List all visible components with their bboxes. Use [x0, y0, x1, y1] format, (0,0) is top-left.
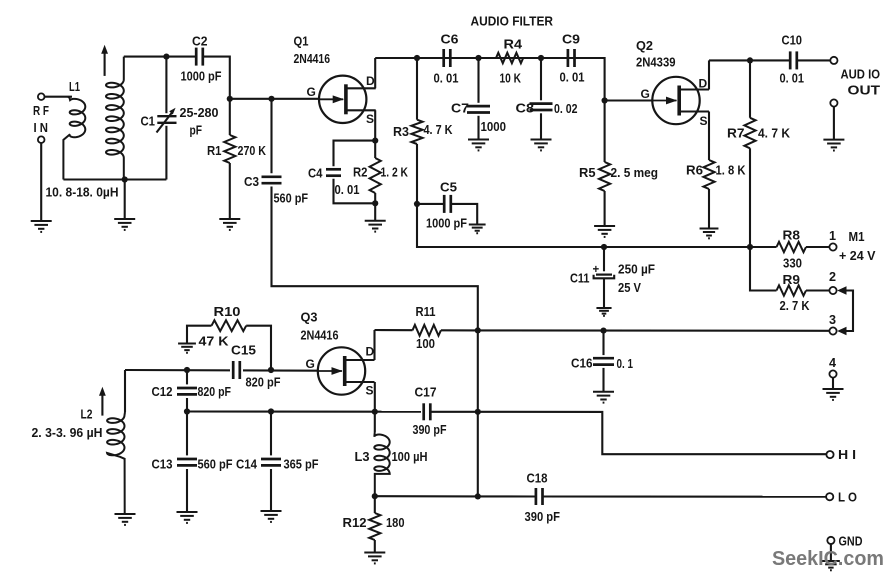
svg-text:C12: C12	[152, 385, 173, 399]
svg-text:0. 01: 0. 01	[434, 70, 459, 85]
svg-text:47 K: 47 K	[199, 334, 230, 349]
svg-text:D: D	[699, 76, 708, 90]
wire node3 bus	[478, 329, 830, 331]
wire R8 to terminal 1	[806, 246, 829, 248]
wire Q3 source down	[374, 382, 376, 412]
resistor R1 270 K	[224, 135, 235, 163]
wire to HI terminal	[478, 412, 827, 454]
wire R10 right lead	[246, 326, 271, 370]
svg-text:C18: C18	[527, 471, 548, 485]
capacitor C3 560 pF	[262, 175, 282, 178]
svg-text:Q1: Q1	[294, 35, 309, 49]
node R10 junction	[268, 367, 274, 373]
node C14 junction	[268, 408, 274, 414]
terminal RF IN bottom	[38, 136, 45, 143]
svg-text:0. 01: 0. 01	[335, 182, 360, 197]
wire source bus line2	[187, 410, 421, 412]
svg-text:SeekIC.com: SeekIC.com	[772, 547, 884, 570]
capacitor C15 820 pF	[230, 361, 243, 379]
capacitor C13 560 pF	[177, 458, 197, 461]
svg-text:560 pF: 560 pF	[198, 457, 233, 472]
wire R11 right lead	[441, 329, 478, 331]
resistor R9 2.7 K	[777, 285, 807, 295]
resistor R6 1.8 K	[703, 160, 714, 189]
ground L2	[115, 514, 136, 525]
node C5 junction	[414, 201, 420, 207]
terminal RF IN top	[38, 93, 45, 100]
wire Q3 source to L3	[374, 412, 376, 432]
wire C18 left lead	[478, 495, 536, 497]
svg-text:C4: C4	[308, 167, 323, 181]
svg-text:250 µF: 250 µF	[618, 262, 655, 277]
capacitor C6 0.01	[442, 49, 445, 67]
node C18 junction	[475, 493, 481, 499]
node C8 junction	[538, 55, 544, 61]
svg-text:OUT: OUT	[848, 83, 881, 97]
wire C1 bottom lead	[165, 126, 167, 180]
svg-text:C14: C14	[236, 458, 257, 472]
svg-text:10. 8-18. 0µH: 10. 8-18. 0µH	[46, 184, 119, 199]
terminal LO	[826, 493, 833, 500]
svg-text:R1: R1	[207, 144, 222, 158]
wire C8 bottom lead	[540, 113, 542, 139]
capacitor C5 1000 pF	[443, 195, 446, 213]
svg-text:365 pF: 365 pF	[284, 457, 319, 472]
svg-text:C16: C16	[571, 356, 593, 370]
wire C13 bottom lead	[186, 469, 188, 512]
wire RF IN bottom to ground	[40, 143, 42, 221]
wire R6 bottom lead	[708, 189, 710, 229]
svg-text:S: S	[366, 112, 374, 126]
svg-text:560 pF: 560 pF	[274, 191, 309, 206]
wire C8 top lead	[540, 58, 542, 100]
wire C9 to Q2 gate	[575, 58, 605, 101]
capacitor C10 0.01	[789, 51, 792, 69]
wire R3 column to +24V rail	[417, 204, 430, 247]
arrow tuning L2	[101, 393, 103, 416]
node C13 junction	[184, 408, 190, 414]
svg-text:C13: C13	[152, 458, 173, 472]
wire C13 top lead	[186, 412, 188, 456]
wire C11 bottom lead	[603, 278, 605, 308]
wire C3 bottom to feedback bus	[272, 187, 478, 331]
wire tank top to C2	[166, 56, 196, 58]
wire Q2 drain to rail	[708, 60, 710, 89]
wire R1 bottom lead	[229, 163, 231, 219]
svg-text:100 µH: 100 µH	[392, 449, 428, 464]
ground C7	[468, 140, 489, 151]
wire GND terminal to ground	[830, 544, 832, 561]
svg-text:270 K: 270 K	[238, 143, 267, 158]
svg-text:4: 4	[829, 356, 836, 370]
capacitor C2 1000 pF	[195, 48, 198, 66]
transistor Q3 2N4416 JFET	[318, 347, 365, 394]
svg-text:1. 2 K: 1. 2 K	[381, 164, 409, 179]
svg-text:0. 01: 0. 01	[780, 71, 805, 86]
svg-text:S: S	[366, 384, 374, 398]
node L3 bottom junction	[372, 493, 378, 499]
wire C7 bottom lead	[477, 116, 479, 140]
wire R3 bottom lead	[416, 144, 418, 204]
svg-text:R12: R12	[343, 516, 367, 530]
wire C17 right lead	[430, 411, 478, 413]
node Q1 source junction	[372, 138, 378, 144]
wire Q2 drain rail	[709, 59, 790, 61]
svg-text:C9: C9	[562, 33, 580, 47]
wire jumper terminal 2 to terminal 3	[840, 291, 853, 332]
svg-text:2N4416: 2N4416	[294, 51, 331, 66]
wire R5 top lead	[604, 101, 606, 163]
transistor Q1 2N4416 JFET	[319, 76, 366, 123]
wire audio return to ground	[833, 107, 835, 140]
svg-text:AUD IO: AUD IO	[841, 67, 881, 81]
wire C4 branch bottom	[334, 179, 376, 204]
svg-text:1000 pF: 1000 pF	[426, 216, 467, 231]
wire C5 left lead	[417, 203, 444, 205]
wire Q3 gate line	[125, 369, 318, 372]
svg-text:2. 5 meg: 2. 5 meg	[611, 165, 659, 180]
svg-text:D: D	[366, 345, 375, 359]
svg-text:C2: C2	[192, 34, 208, 48]
inductor L2 2.3-3.96 uH	[107, 412, 125, 514]
wire L3 bottom bus	[375, 495, 478, 497]
ground R1	[219, 219, 240, 230]
wire terminal 4 to ground	[832, 378, 834, 389]
wire R10 left lead to ground	[187, 326, 212, 344]
svg-text:3: 3	[829, 313, 836, 327]
ground R10	[178, 344, 196, 353]
inductor L1 secondary winding	[106, 57, 124, 180]
wire C11 top lead	[603, 247, 605, 271]
node R3 top junction	[414, 55, 420, 61]
node Q2 gate junction	[602, 97, 608, 103]
node C16 junction	[600, 328, 606, 334]
wire R7 top lead	[749, 60, 751, 117]
svg-text:0. 02: 0. 02	[554, 101, 578, 116]
svg-text:R11: R11	[416, 305, 436, 319]
wire R5 bottom lead	[604, 191, 606, 226]
svg-text:C3: C3	[244, 175, 259, 189]
svg-text:C15: C15	[231, 344, 256, 358]
node C1 top junction	[163, 54, 169, 60]
svg-text:2N4339: 2N4339	[636, 55, 676, 70]
terminal 2	[829, 287, 836, 294]
wire R2 to ground	[374, 203, 376, 220]
resistor R7 4.7 K	[744, 118, 755, 149]
ground R5	[594, 226, 615, 237]
wire R7 bottom lead	[749, 148, 751, 247]
resistor R3 4.7 K	[411, 120, 422, 144]
resistor R4 10 K	[496, 53, 523, 63]
svg-text:R10: R10	[214, 305, 241, 319]
svg-text:820 pF: 820 pF	[246, 374, 281, 389]
ground R6	[700, 229, 719, 239]
node R7 R9 junction	[747, 244, 753, 250]
wire C16 bottom lead	[602, 368, 604, 392]
wire R12 bottom lead	[374, 540, 376, 553]
node R2 bottom junction	[372, 200, 378, 206]
svg-text:C11: C11	[570, 271, 590, 285]
wire C12 top lead	[186, 370, 188, 384]
ground GND terminal	[822, 561, 840, 570]
inductor L3 100 uH	[374, 432, 389, 496]
ground C8	[531, 140, 552, 151]
ground audio return	[823, 140, 844, 151]
resistor R8 330	[777, 242, 807, 252]
svg-text:390 pF: 390 pF	[525, 509, 561, 524]
node R1 top junction	[227, 96, 233, 102]
svg-text:R5: R5	[579, 166, 596, 180]
resistor R11 100	[413, 325, 441, 336]
terminal 3	[829, 327, 836, 334]
svg-text:330: 330	[783, 255, 802, 270]
svg-text:180: 180	[386, 515, 405, 530]
svg-text:390 pF: 390 pF	[413, 422, 447, 437]
wire R1 top lead	[229, 99, 231, 135]
wire tank junction to ground	[124, 180, 126, 220]
svg-text:R4: R4	[504, 37, 523, 51]
svg-text:+ 24 V: + 24 V	[839, 248, 876, 263]
svg-text:10 K: 10 K	[500, 70, 522, 85]
transistor Q2 2N4339 JFET	[652, 77, 699, 124]
capacitor C4 0.01	[326, 168, 341, 171]
svg-text:R7: R7	[727, 126, 745, 140]
wire C14 bottom lead	[270, 469, 272, 511]
ground R12	[364, 553, 385, 564]
svg-text:1000: 1000	[481, 119, 507, 134]
svg-text:100: 100	[416, 336, 435, 351]
svg-text:1: 1	[829, 229, 836, 243]
svg-text:R6: R6	[686, 164, 703, 178]
wire C12 bottom lead	[186, 398, 188, 412]
wire feedback vertical	[477, 330, 479, 496]
svg-text:L O: L O	[838, 491, 857, 505]
wire C1 top lead	[165, 57, 167, 114]
resistor R2 1.2 K	[374, 141, 376, 158]
svg-text:D: D	[366, 74, 375, 88]
capacitor C17 390 pF	[422, 403, 425, 420]
svg-text:2: 2	[829, 270, 836, 284]
svg-text:25-280: 25-280	[180, 105, 219, 120]
capacitor C14 365 pF	[261, 458, 281, 461]
svg-text:4. 7 K: 4. 7 K	[424, 122, 454, 137]
svg-text:820 pF: 820 pF	[198, 384, 232, 399]
svg-text:R3: R3	[393, 125, 409, 139]
node Q3 source junction	[372, 409, 378, 415]
node C7 junction	[475, 55, 481, 61]
wire C18 to LO terminal	[543, 495, 827, 497]
svg-text:25 V: 25 V	[618, 280, 641, 295]
svg-text:0. 01: 0. 01	[560, 69, 585, 84]
ground C13	[177, 512, 198, 523]
wire R12 top lead	[374, 496, 376, 513]
capacitor C9 0.01	[567, 49, 570, 67]
resistor R5 2.5 meg	[599, 162, 610, 191]
svg-text:1000 pF: 1000 pF	[181, 68, 222, 83]
ground C11	[596, 308, 611, 316]
wire C7 top lead	[477, 58, 479, 103]
capacitor C18 390 pF	[535, 488, 538, 505]
svg-text:G: G	[306, 357, 315, 371]
wire C5 right lead to ground	[451, 204, 477, 225]
node R11 C3 junction	[475, 327, 481, 333]
terminal 4	[829, 370, 836, 377]
svg-text:G: G	[307, 85, 316, 99]
svg-text:C5: C5	[440, 181, 457, 195]
wire C14 top lead	[270, 412, 272, 456]
ground C5	[469, 225, 486, 234]
svg-text:C7: C7	[451, 101, 469, 115]
svg-text:1. 8 K: 1. 8 K	[716, 163, 747, 178]
resistor R10 47 K	[212, 320, 247, 331]
wire gate line Q1	[230, 98, 319, 100]
capacitor C7 1000	[467, 105, 490, 108]
arrow tuning L1	[104, 51, 106, 76]
svg-text:S: S	[700, 114, 708, 128]
wire RF IN top to L1 primary	[45, 96, 72, 98]
ground R2	[365, 221, 386, 232]
ground C16	[593, 392, 614, 403]
svg-text:0. 1: 0. 1	[617, 356, 634, 371]
ground C14	[261, 511, 282, 522]
wire gate line Q2	[605, 99, 653, 101]
svg-text:C6: C6	[441, 33, 459, 47]
svg-text:Q3: Q3	[301, 310, 318, 324]
wire R9 to terminal 2	[806, 289, 829, 291]
svg-text:Q2: Q2	[636, 39, 653, 53]
node C11 junction	[601, 244, 607, 250]
wire Q3 drain to R11	[373, 330, 375, 360]
svg-text:R8: R8	[783, 228, 801, 242]
wire R9 branch	[750, 247, 777, 291]
svg-text:2N4416: 2N4416	[301, 328, 339, 343]
svg-text:I N: I N	[34, 121, 49, 135]
svg-text:L3: L3	[355, 450, 370, 464]
ground terminal 4	[823, 389, 844, 400]
wire Q1 drain to top rail	[374, 58, 376, 88]
wire R3 top lead	[416, 58, 418, 120]
svg-text:R2: R2	[353, 165, 368, 179]
ground RF IN	[31, 221, 52, 232]
svg-text:C1: C1	[141, 115, 156, 129]
svg-text:C10: C10	[782, 34, 803, 48]
svg-text:2. 7 K: 2. 7 K	[780, 298, 811, 313]
node C3 junction	[268, 96, 274, 102]
node C12 top junction	[184, 367, 190, 373]
svg-text:L2: L2	[81, 407, 93, 421]
svg-text:2. 3-3. 96 µH: 2. 3-3. 96 µH	[32, 425, 103, 440]
terminal 1 M1 +24V	[829, 243, 836, 250]
wire tank top	[124, 56, 167, 58]
terminal AUDIO OUT	[830, 57, 837, 64]
node tank bottom junction	[122, 176, 128, 182]
wire C16 top lead	[602, 331, 604, 356]
svg-text:C17: C17	[415, 385, 437, 399]
node R7 top junction	[747, 57, 753, 63]
node C17 right junction	[475, 409, 481, 415]
svg-text:M1: M1	[849, 230, 865, 244]
terminal audio out return	[830, 99, 837, 106]
svg-text:AUDIO FILTER: AUDIO FILTER	[471, 13, 554, 28]
resistor R12 180	[369, 513, 380, 540]
svg-text:pF: pF	[190, 122, 203, 137]
wire Q1 source down	[374, 110, 376, 140]
terminal HI	[826, 451, 833, 458]
wire C10 to audio out	[797, 59, 831, 61]
wire gate line to L2	[124, 370, 126, 412]
svg-text:R F: R F	[33, 104, 49, 118]
svg-text:H I: H I	[838, 448, 856, 462]
svg-text:R9: R9	[783, 273, 801, 287]
svg-text:G: G	[641, 87, 650, 101]
svg-text:4. 7 K: 4. 7 K	[758, 125, 791, 140]
capacitor C1 variable 25-280 pF	[157, 115, 176, 117]
svg-text:C8: C8	[516, 101, 535, 115]
inductor L1 primary winding	[63, 97, 85, 180]
wire R11 left lead	[375, 329, 413, 331]
ground tank	[114, 219, 135, 230]
wire Q1 drain rail	[375, 57, 604, 59]
terminal GND	[827, 537, 834, 544]
capacitor C8 0.02	[530, 102, 553, 105]
wire C4 branch top	[334, 141, 376, 167]
wire C2 to gate corner	[203, 57, 230, 99]
svg-text:L1: L1	[69, 80, 80, 94]
capacitor C16 0.1	[593, 357, 614, 360]
capacitor C12 820 pF	[177, 387, 197, 390]
wire Q2 source down	[708, 112, 710, 161]
wire tank bottom	[63, 178, 166, 180]
wire C3 top lead	[270, 99, 272, 174]
wire +24V rail	[417, 246, 777, 248]
